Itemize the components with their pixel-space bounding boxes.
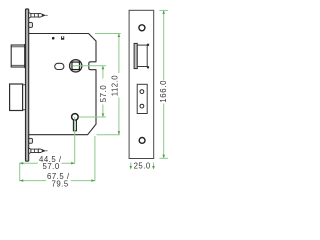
- dim line 44.5/57.0: [20, 162, 75, 165]
- spindle hub (circle with square hole): [70, 60, 82, 72]
- label 44.5 / 57.0: [38, 155, 62, 171]
- dim 112.0 vertical line: [118, 34, 121, 135]
- svg-text:57.0: 57.0: [99, 85, 108, 103]
- small square mark: [61, 36, 64, 39]
- extension line from case right edge down: [94, 136, 96, 181]
- dim 25.0 left arrow: [130, 163, 133, 170]
- dim 112.0 connector bottom (case bottom): [97, 134, 120, 136]
- bottom screw hole: [139, 138, 145, 144]
- svg-text:79.5: 79.5: [52, 180, 69, 189]
- svg-text:166.0: 166.0: [159, 80, 168, 103]
- svg-text:25.0: 25.0: [134, 162, 151, 171]
- lock case outline: [29, 34, 96, 135]
- label 57.0 (rotated): [99, 79, 108, 105]
- dim 57.0 vertical line: [102, 66, 105, 117]
- deadbolt opening with bolt face and holes: [137, 84, 147, 113]
- label 67.5 / 79.5: [46, 172, 70, 188]
- extension line left (faceplate): [19, 163, 21, 182]
- svg-text:112.0: 112.0: [110, 75, 119, 97]
- dim line 67.5/79.5: [20, 179, 95, 182]
- dim 166.0 vertical line: [162, 10, 165, 158]
- bottom fixing screw: [29, 148, 48, 154]
- top rivet tab: [29, 22, 33, 27]
- deadbolt: [10, 84, 26, 111]
- label 112.0 (rotated): [110, 73, 120, 98]
- label 166.0 (rotated): [159, 80, 168, 104]
- dim 166.0 bottom bar: [159, 157, 168, 159]
- keyhole: [72, 114, 79, 131]
- dim 166.0 top bar: [159, 9, 168, 11]
- dim 57.0 connector bottom (keyhole centre): [79, 116, 106, 118]
- latch opening with latch bolt face: [134, 43, 149, 68]
- bottom rivet tab: [29, 138, 33, 143]
- dim 25.0 right arrow: [152, 163, 155, 170]
- top fixing screw: [29, 13, 48, 19]
- dim 57.0 connector top (spindle centre): [73, 65, 106, 67]
- small dot mark: [52, 37, 55, 40]
- svg-text:57.0: 57.0: [43, 162, 60, 171]
- latch bolt: [11, 44, 26, 67]
- faceplate front outline: [129, 10, 154, 158]
- top screw hole: [139, 25, 145, 31]
- follower oval (stadium slot): [55, 63, 64, 69]
- faceplate (forend, side view): [26, 9, 29, 161]
- extension line from keyhole down: [74, 117, 76, 163]
- dim 112.0 connector top (case top): [95, 33, 121, 35]
